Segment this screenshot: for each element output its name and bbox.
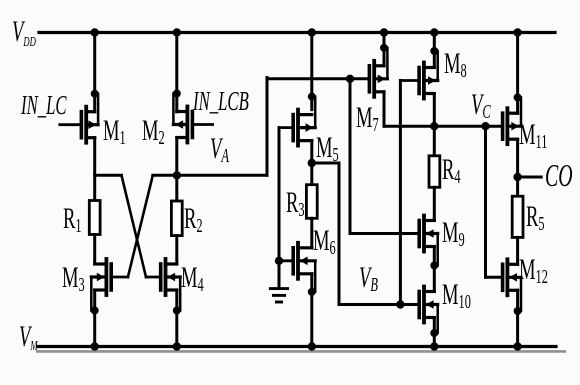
resistor R5 [512, 196, 523, 237]
wire R3 to M6 drain [310, 218, 313, 248]
resistor R4 [429, 156, 440, 188]
M4 label [181, 262, 204, 296]
transistor M12 [503, 259, 522, 315]
wire VA to M7 gate [267, 77, 369, 80]
IN_LCB input label [192, 86, 249, 116]
wire M2 drain to R2 [175, 138, 178, 202]
wire M7 drain to VC [383, 92, 386, 126]
M10 label [442, 279, 471, 313]
M2 label [142, 115, 165, 149]
wire M1 drain to R1 [93, 138, 96, 201]
transistor M1 [60, 90, 99, 143]
wire R2 to M4 drain [175, 236, 178, 264]
wire to M9 gate [350, 232, 419, 235]
wire M9 source to M10 drain [433, 247, 436, 292]
node VA junction [173, 171, 181, 179]
transistor M3 [91, 259, 128, 315]
cross wire to M3 gate [128, 175, 153, 277]
wire VDD to M5 source [308, 28, 316, 109]
M8 label [444, 48, 467, 82]
VDD power rail [39, 31, 555, 34]
R1 label [63, 203, 82, 237]
wire VB to M10 gate [339, 303, 419, 306]
svg-text:IN_LCB: IN_LCB [192, 86, 249, 116]
wire VA to riser [177, 174, 267, 177]
transistor M2 [173, 90, 213, 143]
VB label [359, 262, 378, 296]
transistor M7 [369, 44, 388, 97]
wire M3 source to VM [91, 290, 99, 351]
wire M5 drain to R3 [310, 141, 313, 185]
CO output lead [518, 176, 542, 179]
wire R5 to M12 drain [516, 237, 519, 264]
wire VDD to M8 source [430, 28, 438, 67]
transistor M11 [503, 94, 522, 145]
wire VA riser [266, 78, 269, 176]
transistor M6 [279, 243, 316, 296]
wire M12 source to VM [513, 290, 521, 350]
resistor R2 [171, 201, 182, 236]
wire M10 source to VM [430, 318, 438, 351]
wire M5 drain to VB riser [312, 162, 339, 165]
wire M6 source to VM [308, 274, 316, 351]
node VC-M12 junction [481, 122, 489, 130]
CO label [545, 157, 573, 193]
svg-text:IN_LC: IN_LC [20, 90, 67, 120]
R4 label [442, 154, 461, 188]
wire VB riser [338, 163, 341, 305]
node VB junction [396, 300, 404, 308]
transistor M9 [419, 216, 438, 270]
VC wire [384, 125, 503, 128]
wire VDD to M2 source [173, 28, 181, 111]
ground [270, 289, 287, 302]
wire VDD to M7 source [380, 28, 388, 66]
M5 label [316, 132, 339, 166]
R2 label [184, 203, 203, 237]
wire M4 source to VM [173, 290, 181, 351]
M6 label [313, 225, 336, 259]
M11 label [519, 119, 547, 153]
M3 label [62, 262, 85, 296]
node VA branch junction [346, 75, 354, 83]
VM power rail [36, 347, 566, 352]
M7 label [356, 102, 379, 136]
wire to M12 gate [486, 276, 503, 279]
wire R4 to M9 drain [433, 187, 436, 220]
M9 label [442, 217, 465, 251]
resistor R3 [306, 185, 317, 219]
wire R1 to M3 drain [93, 235, 96, 265]
wire M1-drain node to cross [95, 174, 122, 177]
IN_LC input label [20, 90, 67, 120]
wire VA to cross [153, 174, 177, 177]
VC label [471, 89, 491, 123]
transistor M5 [279, 93, 316, 146]
wire M8 gate drop to VB [399, 81, 402, 305]
wire M5 gate to M6 gate and ground [275, 128, 283, 288]
resistor R1 [89, 201, 100, 235]
M1 label [103, 115, 126, 149]
VDD label [12, 16, 36, 50]
M12 label [519, 254, 548, 288]
svg-text:CO: CO [545, 157, 573, 193]
VM label [19, 321, 39, 354]
wire VA drop to M9 gate [349, 79, 352, 234]
wire VDD to M1 source [91, 28, 99, 111]
transistor M10 [419, 287, 438, 338]
cross wire to M4 gate [122, 175, 147, 277]
wire M11 drain to R5 [516, 139, 519, 196]
node M5 drain junction [308, 159, 316, 167]
R5 label [526, 201, 545, 235]
wire VC to R4 [433, 126, 436, 156]
node VC-R4 junction [430, 122, 438, 130]
wire M8 drain to VC [433, 94, 436, 127]
wire VC drop to M12 gate [484, 126, 487, 277]
transistor M4 [146, 259, 181, 315]
R3 label [286, 187, 305, 221]
node CO junction [513, 173, 521, 181]
transistor M8 [400, 47, 438, 99]
wire VDD to M11 source [513, 28, 521, 113]
VA label [210, 133, 230, 167]
